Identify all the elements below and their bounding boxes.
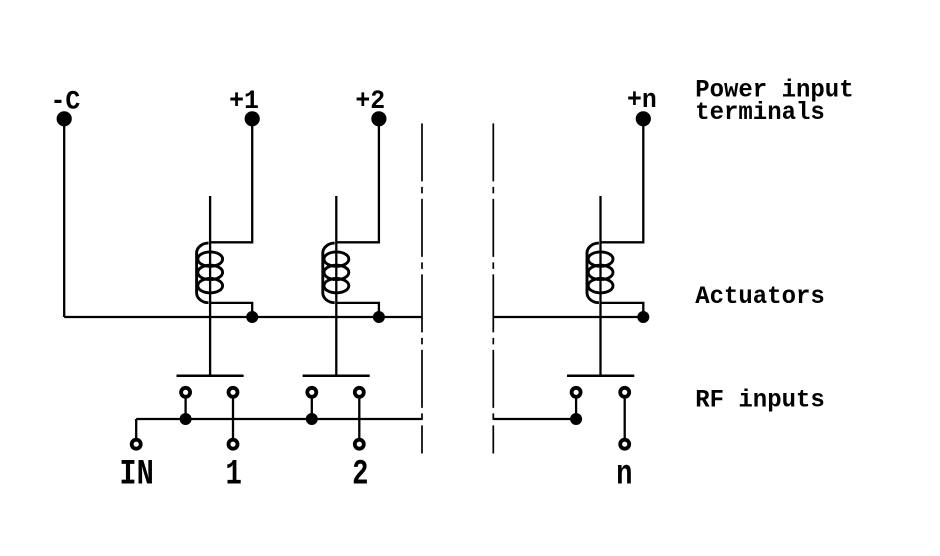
wire actuator bus right segment	[493, 316, 643, 318]
svg-text:terminals: terminals	[695, 99, 825, 127]
wire -C drop to actuator bus	[63, 119, 65, 317]
svg-text:n: n	[616, 456, 632, 495]
switch Sn right contact	[620, 388, 629, 397]
svg-text:+n: +n	[627, 84, 657, 115]
wire IN riser	[135, 419, 137, 438]
svg-text:+1: +1	[229, 85, 259, 116]
wire +2 drop	[336, 119, 379, 243]
junction dot Sn / RF bus	[570, 413, 582, 425]
switch S1 plate	[177, 375, 244, 378]
wire Sn right contact to port n	[624, 397, 626, 439]
port n circle	[620, 440, 629, 449]
switch S1 left contact	[181, 388, 190, 397]
junction dot S1 / RF bus	[180, 413, 192, 425]
wire S2 left contact to RF bus	[311, 397, 313, 419]
wire S2 right contact to port 2	[358, 397, 360, 439]
junction dot coil Kn / actuator bus	[637, 311, 649, 323]
svg-text:+2: +2	[355, 85, 385, 116]
wire S1 left contact to RF bus	[184, 397, 186, 419]
relay Kn actuator rod	[599, 196, 601, 376]
coil K1	[197, 243, 223, 303]
svg-text:RF inputs: RF inputs	[695, 387, 825, 415]
coil Kn	[587, 243, 613, 303]
svg-text:-C: -C	[50, 85, 80, 116]
switch Sn plate	[567, 375, 634, 378]
relay K1 actuator rod	[209, 196, 211, 376]
break line right (dash-dot)	[492, 123, 494, 453]
terminal dot +n	[636, 111, 651, 126]
wire coil Kn bottom lead to bus	[601, 303, 644, 317]
wire coil K2 bottom lead to bus	[336, 303, 379, 317]
switch S1 right contact	[229, 388, 238, 397]
junction dot S2 / RF bus	[306, 413, 318, 425]
wire RF bus right segment	[493, 418, 576, 420]
svg-text:IN: IN	[119, 454, 153, 494]
wire coil K1 bottom lead to bus	[210, 303, 252, 317]
terminal dot +1	[245, 111, 260, 126]
svg-text:1: 1	[226, 456, 242, 495]
switch S2 left contact	[307, 388, 316, 397]
wire actuator bus left segment	[64, 316, 422, 318]
wire RF bus left segment	[136, 418, 422, 420]
relay K2 actuator rod	[335, 196, 337, 376]
wire Sn left contact to RF bus	[575, 397, 577, 419]
port 2 circle	[355, 440, 364, 449]
svg-text:Actuators: Actuators	[695, 284, 825, 312]
terminal dot +2	[371, 111, 386, 126]
terminal dot -C	[57, 111, 72, 126]
switch Sn left contact	[572, 388, 581, 397]
break line left (dash-dot)	[421, 123, 423, 453]
wire +1 drop	[210, 119, 252, 243]
port IN circle	[132, 440, 141, 449]
junction dot coil K1 / actuator bus	[246, 311, 258, 323]
port 1 circle	[229, 440, 238, 449]
switch S2 plate	[303, 375, 370, 378]
switch S2 right contact	[355, 388, 364, 397]
coil K2	[323, 243, 349, 303]
wire S1 right contact to port 1	[232, 397, 234, 439]
svg-text:2: 2	[352, 456, 368, 495]
wire +n drop	[601, 119, 644, 243]
junction dot coil K2 / actuator bus	[373, 311, 385, 323]
